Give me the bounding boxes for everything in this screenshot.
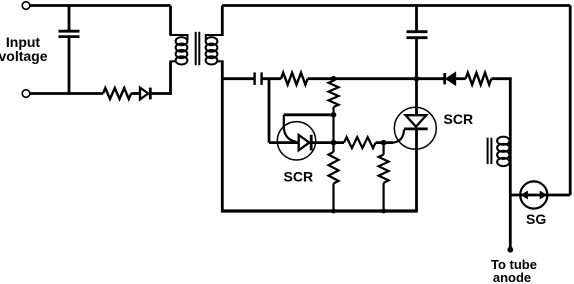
node tube anode terminal bbox=[507, 247, 513, 253]
spark gap SG right electrode bbox=[540, 191, 548, 200]
wire SCR2 anode vertical bbox=[415, 79, 418, 115]
wire SCR1 cathode to node bbox=[311, 141, 344, 144]
node C3 / mid bus bbox=[414, 76, 420, 82]
spark gap SG envelope bbox=[520, 181, 547, 208]
SCR2 gate lead bbox=[393, 130, 404, 143]
wire SCR2 cathode vertical bbox=[415, 129, 418, 212]
wire R4 to node bbox=[376, 141, 393, 144]
wire bottom-left horizontal bbox=[30, 92, 103, 95]
wire C2 to R2 bbox=[262, 77, 281, 80]
spark gap SG left electrode bbox=[520, 191, 528, 200]
wire R5 to bottom bus bbox=[332, 184, 334, 212]
wire secondary bottom vertical (left rail) bbox=[221, 61, 224, 212]
wire node to R5 bbox=[332, 143, 334, 152]
resistor R4 bbox=[344, 137, 376, 148]
wire R2 to C3 node bbox=[308, 77, 417, 80]
wire primary top vertical bbox=[169, 6, 172, 36]
node bottom bus R6 bbox=[381, 209, 386, 214]
SCR2 thyristor symbol bbox=[404, 115, 428, 129]
node bottom bus R5 bbox=[331, 209, 336, 214]
svg-text:anode: anode bbox=[493, 270, 531, 284]
wire SCR1 gate bus bbox=[284, 113, 334, 116]
transformer T1 primary winding bbox=[170, 35, 188, 65]
wire to SCR1 anode bbox=[269, 141, 300, 144]
svg-text:SCR: SCR bbox=[284, 169, 314, 185]
transformer T1 secondary winding bbox=[206, 35, 224, 65]
svg-text:voltage: voltage bbox=[0, 48, 48, 64]
inductor L1 winding bbox=[497, 137, 509, 167]
wire SG branch horizontal bbox=[510, 194, 570, 197]
wire primary bottom vertical bbox=[169, 62, 172, 95]
resistor R6 bbox=[379, 155, 389, 183]
wire top-left horizontal bbox=[30, 4, 171, 7]
capacitor C3 bbox=[407, 32, 428, 38]
node SCR2 gate junction bbox=[381, 140, 387, 146]
node SCR1 cathode junction bbox=[331, 140, 337, 146]
SCR1 thyristor symbol bbox=[299, 135, 312, 151]
wire right edge vertical bbox=[569, 6, 572, 196]
wire node to D2 bbox=[417, 77, 444, 80]
SCR1 gate lead bbox=[284, 115, 297, 142]
resistor R7 bbox=[466, 73, 492, 85]
resistor R3 bbox=[329, 81, 339, 107]
wire C3 top lead bbox=[415, 6, 418, 32]
wire C3 bottom lead bbox=[415, 38, 418, 79]
wire bottom bus bbox=[221, 209, 418, 212]
wire R7 to right rail bbox=[491, 79, 510, 80]
transformer T1 core bbox=[196, 32, 200, 65]
input terminal top bbox=[22, 2, 30, 10]
input terminal bottom bbox=[22, 90, 30, 98]
wire D1 to transformer bbox=[150, 92, 172, 95]
resistor R1 bbox=[103, 88, 131, 99]
resistor R2 bbox=[281, 73, 308, 85]
wire D2 to R7 bbox=[455, 77, 465, 80]
wire R3 to gate node bbox=[332, 107, 334, 143]
SCR2 envelope circle bbox=[394, 107, 436, 149]
svg-text:SCR: SCR bbox=[444, 111, 474, 127]
wire capacitor C1 bottom lead bbox=[68, 37, 71, 94]
wire node to R6 bbox=[383, 143, 385, 155]
wire left rail to C2 bbox=[222, 77, 254, 80]
wire capacitor C1 top lead bbox=[68, 6, 71, 32]
svg-text:SG: SG bbox=[526, 211, 546, 227]
inductor L1 core bbox=[488, 138, 492, 164]
wire top bus bbox=[222, 4, 570, 7]
capacitor C2 bbox=[255, 72, 262, 85]
diode D2 bbox=[445, 73, 456, 85]
wire secondary top vertical bbox=[221, 6, 224, 37]
wire right rail vertical bbox=[509, 79, 512, 250]
node mid bus / R3 bbox=[331, 76, 337, 82]
wire R1 to D1 bbox=[131, 92, 139, 95]
capacitor C1 bbox=[59, 31, 80, 36]
node gate bus / R3 bbox=[331, 112, 337, 118]
diode D1 bbox=[140, 88, 150, 100]
wire R6 to bottom bus bbox=[383, 183, 385, 212]
wire SCR1 anode branch vertical bbox=[268, 78, 271, 143]
resistor R5 bbox=[329, 152, 339, 184]
SCR1 envelope circle bbox=[277, 122, 315, 160]
